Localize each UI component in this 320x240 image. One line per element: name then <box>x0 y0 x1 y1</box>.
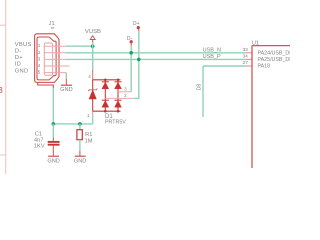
D1 pin 4 stub <box>92 70 94 80</box>
net flag D+ dot <box>137 26 140 29</box>
frame row tick bottom <box>0 154 6 156</box>
svg-text:PA18: PA18 <box>258 64 271 70</box>
svg-text:ID: ID <box>15 62 21 68</box>
connector J1 inner shell outline <box>37 37 56 80</box>
frame border vertical line <box>5 0 7 174</box>
zener diode of D1: triangle <box>89 90 96 99</box>
IC U1 pin stub 33 <box>246 52 252 54</box>
gnd symbol under R1: stub <box>79 151 81 156</box>
capacitor C1 stub top (wire) <box>52 124 54 138</box>
diode array D1 bottom rail <box>93 110 121 112</box>
junction ground net at C1 <box>52 122 56 126</box>
pin line 5 GND <box>44 72 67 74</box>
svg-text:USB_P: USB_P <box>203 54 221 60</box>
wire shield to ground net <box>52 88 54 124</box>
connector J1 tongue <box>44 43 52 75</box>
pin line 4 ID <box>44 65 70 67</box>
svg-text:34: 34 <box>242 54 248 60</box>
wire VUSB junction down to D1 pin 4 <box>92 46 94 70</box>
wire PA18 net horizontal <box>203 65 246 67</box>
D1 column B bottom diode triangle <box>115 101 122 108</box>
svg-text:R1: R1 <box>85 132 92 138</box>
wire VBUS pin1 to VUSB tap <box>66 45 93 47</box>
zener diode of D1: column line <box>92 80 94 111</box>
D1 column B top diode triangle <box>115 82 122 89</box>
wire USB_P row <box>66 58 246 60</box>
D1 column B bottom diode bar <box>115 99 122 101</box>
svg-text:GND: GND <box>60 87 72 93</box>
svg-text:D+: D+ <box>133 21 140 27</box>
frame row tick top <box>0 24 6 26</box>
svg-text:33: 33 <box>242 47 248 53</box>
diode array D1 top rail <box>93 79 121 81</box>
D1 pin 2 line <box>105 97 134 99</box>
net flag D- dot <box>130 40 133 43</box>
D1 pin 1 stub <box>92 111 94 116</box>
connector J1 outer shell outline <box>35 34 59 83</box>
svg-text:PA24/USB_DM: PA24/USB_DM <box>258 51 291 57</box>
D1 diode column A line <box>104 80 106 111</box>
svg-text:27: 27 <box>242 60 248 66</box>
D1 diode column B line <box>117 80 119 111</box>
capacitor C1 lead bottom <box>52 146 54 157</box>
svg-text:D-: D- <box>127 36 133 42</box>
svg-text:GND: GND <box>47 159 59 165</box>
svg-text:J1: J1 <box>49 21 55 27</box>
D1 column A bottom diode triangle <box>102 101 109 108</box>
svg-text:U1: U1 <box>252 40 259 46</box>
svg-text:4: 4 <box>38 63 41 68</box>
svg-text:GND: GND <box>74 159 86 165</box>
D1 junction dot rail bottom col B <box>117 110 120 113</box>
junction D- on USB_N wire <box>129 51 133 55</box>
capacitor C1 plate bottom <box>48 144 60 146</box>
resistor R1 stub top (wire) <box>79 124 81 130</box>
svg-text:1KV: 1KV <box>34 143 45 149</box>
wire D- flag down to D1 pin 3 <box>130 46 132 92</box>
resistor R1 stub bottom (wire) <box>79 140 81 151</box>
gnd symbol near connector: stub <box>65 79 67 85</box>
D1 column A bottom diode bar <box>102 99 109 101</box>
supply symbol VUSB stub <box>92 40 94 42</box>
wire ground net horizontal <box>53 123 92 125</box>
pin line 3 D+ <box>44 58 66 60</box>
gnd symbol near connector: bar <box>61 84 72 86</box>
IC U1 box top edge <box>252 45 290 47</box>
gnd symbol under R1: bar <box>75 155 86 157</box>
svg-text:D+: D+ <box>15 55 23 61</box>
D1 column A top diode triangle <box>102 82 109 89</box>
wire pin5 GND down <box>65 73 67 79</box>
capacitor C1 plate top <box>48 141 60 143</box>
D1 junction dot rail top col A <box>104 79 107 82</box>
pin line 1 VBUS <box>44 45 66 47</box>
net flag D+ stub <box>138 29 140 31</box>
junction D+ on USB_P wire <box>137 58 141 62</box>
svg-text:2: 2 <box>38 50 41 55</box>
supply symbol VUSB triangle <box>90 36 95 40</box>
capacitor C1 lead top <box>52 138 54 142</box>
svg-text:VUSB: VUSB <box>85 29 101 35</box>
sheet background <box>0 0 290 174</box>
svg-text:GND: GND <box>15 68 29 74</box>
zener diode of D1: cathode bar with bent ends <box>88 89 97 92</box>
wire VUSB stub to junction <box>92 42 94 46</box>
resistor R1 body <box>77 130 82 140</box>
junction VUSB on VBUS wire <box>91 44 95 48</box>
wire D+ flag down to D1 pin 2 <box>134 31 139 98</box>
IC U1 pin stub 27 <box>246 65 252 67</box>
connector J1 shield bracket <box>38 82 54 88</box>
IC U1 pin stub 34 <box>246 58 252 60</box>
D1 junction dot rail top col B <box>117 79 120 82</box>
connector J1 value dash <box>51 27 54 28</box>
svg-text:USB_N: USB_N <box>203 47 221 53</box>
D1 column B top diode bar <box>115 81 122 83</box>
IC U1 box left edge <box>251 46 253 168</box>
wire USB_N row <box>66 52 246 54</box>
svg-text:1M: 1M <box>85 139 93 145</box>
svg-text:VBUS: VBUS <box>15 42 32 48</box>
wire ground net up to D1 pin 1 <box>92 116 94 124</box>
D1 junction dot rail bottom col A <box>104 110 107 113</box>
svg-text:PRTR5V: PRTR5V <box>105 120 126 126</box>
svg-text:5: 5 <box>38 70 41 75</box>
wire PA18 net vertical <box>202 66 204 117</box>
svg-text:D8: D8 <box>197 84 203 91</box>
gnd symbol under C1: bar <box>48 155 59 157</box>
D1 pin 3 line <box>118 91 131 93</box>
net flag D- stub <box>130 43 132 45</box>
junction ground net at R1 <box>78 122 82 126</box>
svg-text:D-: D- <box>15 49 22 55</box>
svg-text:PA25/USB_DP: PA25/USB_DP <box>258 57 291 63</box>
D1 column A top diode bar <box>102 81 109 83</box>
pin line 2 D- <box>44 52 66 54</box>
svg-text:3: 3 <box>38 56 41 61</box>
svg-text:1: 1 <box>38 43 41 48</box>
